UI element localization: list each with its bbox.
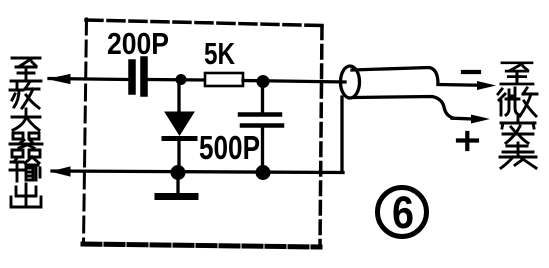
char zhi (right): [501, 63, 533, 84]
label minus sign: [463, 70, 479, 74]
figure number 6 circle: [378, 188, 427, 237]
arrow left bottom: [52, 167, 70, 176]
wire diode anode: [177, 84, 180, 113]
arrow right bottom: [471, 115, 490, 124]
diode D1 cathode bar: [164, 136, 195, 141]
wire resistor to coax: [243, 81, 345, 83]
coax cable left ellipse: [341, 66, 360, 98]
capacitor C2 500P plate bottom: [242, 123, 282, 128]
svg-text:200P: 200P: [107, 26, 169, 61]
dashed enclosure box right: [320, 26, 322, 246]
wire output plus lead: [452, 117, 473, 121]
char an: [501, 116, 535, 143]
node junction 1: [176, 74, 187, 85]
dashed enclosure box bottom: [83, 244, 320, 247]
wire cap to resistor: [148, 78, 205, 82]
svg-text:500P: 500P: [199, 129, 260, 166]
diode D1 body: [165, 112, 194, 135]
char qi: [10, 133, 42, 157]
wire diode to bottom: [177, 141, 180, 171]
char chu: [11, 184, 41, 207]
dashed enclosure box left: [84, 19, 87, 243]
dashed enclosure box top: [86, 20, 322, 26]
capacitor C1 200P plate right: [140, 60, 148, 93]
capacitor C2 500P plate top: [240, 112, 280, 117]
coax cable body bottom line: [354, 97, 453, 119]
wire 500P bottom lead: [261, 128, 264, 172]
wire top left segment: [49, 79, 128, 80]
coax shield drop wire: [340, 97, 343, 171]
char wei: [498, 88, 537, 116]
char biao: [500, 143, 536, 168]
resistor R1 5K body: [205, 73, 243, 86]
node junction 2: [257, 75, 270, 88]
arrow right top: [477, 81, 496, 90]
node junction 4: [256, 165, 271, 180]
char shu: [10, 157, 40, 181]
label plus sign: [458, 133, 477, 149]
svg-text:6: 6: [392, 187, 414, 238]
wire 500P top lead: [261, 88, 264, 113]
arrow left top: [49, 75, 70, 84]
node junction 3: [171, 165, 186, 180]
char zhi (left): [11, 58, 41, 81]
svg-text:5K: 5K: [204, 36, 235, 71]
char da: [12, 109, 40, 130]
right vertical label: 至微安表 (to microammeter): [498, 63, 537, 168]
char fang: [10, 83, 39, 108]
ground lead: [176, 179, 179, 194]
wire output minus lead: [438, 83, 479, 87]
left vertical label: 至放大器输出 (to amplifier output): [10, 58, 42, 207]
coax cable body top line: [352, 68, 438, 85]
capacitor C1 200P plate left: [128, 63, 136, 91]
ground bar: [158, 193, 195, 200]
wire bottom rail: [52, 171, 343, 173]
